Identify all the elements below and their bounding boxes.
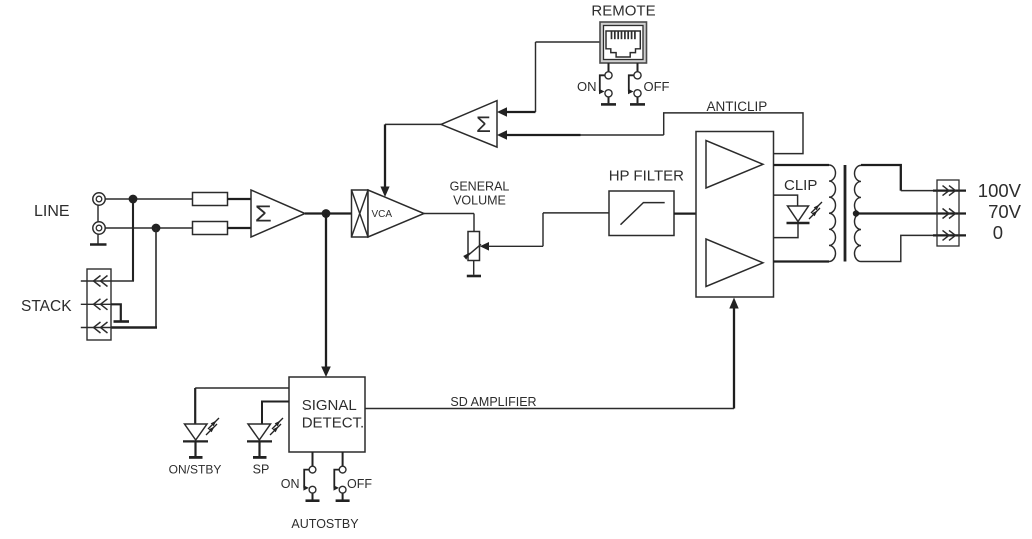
svg-text:DETECT.: DETECT. xyxy=(302,415,365,432)
svg-text:Σ: Σ xyxy=(476,112,491,137)
svg-text:ANTICLIP: ANTICLIP xyxy=(707,99,768,114)
svg-text:SIGNAL: SIGNAL xyxy=(302,397,357,414)
svg-text:LINE: LINE xyxy=(34,203,70,220)
svg-text:Σ: Σ xyxy=(255,202,272,227)
svg-text:GENERAL: GENERAL xyxy=(450,180,510,194)
svg-text:VCA: VCA xyxy=(372,209,393,220)
svg-text:70V: 70V xyxy=(988,201,1022,222)
svg-text:OFF: OFF xyxy=(644,79,670,94)
svg-text:ON: ON xyxy=(577,79,597,94)
svg-text:ON: ON xyxy=(281,477,300,491)
svg-text:SD AMPLIFIER: SD AMPLIFIER xyxy=(450,395,536,409)
svg-text:HP FILTER: HP FILTER xyxy=(609,167,684,184)
svg-text:STACK: STACK xyxy=(21,298,72,315)
svg-text:AUTOSTBY: AUTOSTBY xyxy=(291,517,359,531)
svg-text:CLIP: CLIP xyxy=(784,177,817,194)
svg-text:OFF: OFF xyxy=(347,477,372,491)
svg-text:0: 0 xyxy=(993,222,1003,243)
svg-text:ON/STBY: ON/STBY xyxy=(169,463,222,477)
svg-text:VOLUME: VOLUME xyxy=(453,194,506,208)
svg-text:REMOTE: REMOTE xyxy=(591,3,655,20)
svg-text:SP: SP xyxy=(253,463,270,477)
svg-text:100V: 100V xyxy=(978,180,1022,201)
